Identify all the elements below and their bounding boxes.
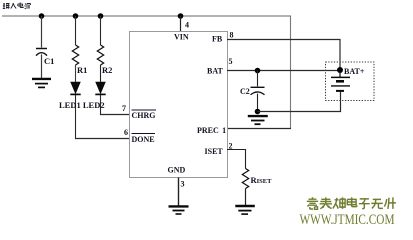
- wire LED1 bottom lead: [75, 95, 77, 139]
- battery BT1: [331, 70, 350, 91]
- node dot VIN/rail: [178, 13, 184, 19]
- node dot BAT/C2: [255, 68, 261, 74]
- label input-power 输入电源 (stroke glyphs): [3, 3, 31, 9]
- svg-text:R2: R2: [102, 65, 112, 75]
- svg-text:ISET: ISET: [205, 147, 224, 156]
- wire battery return: [258, 91, 341, 112]
- svg-text:C2: C2: [240, 87, 250, 96]
- wire R1-LED1 lead: [75, 65, 77, 82]
- svg-text:3: 3: [181, 180, 185, 189]
- ground GND: [169, 206, 189, 214]
- pin label CHRG with overline: [132, 110, 157, 120]
- wire C2 top lead: [257, 71, 259, 87]
- ground C2: [248, 116, 268, 124]
- wire C2 bottom lead: [257, 94, 259, 112]
- svg-text:LED1 LED2: LED1 LED2: [59, 100, 105, 110]
- capacitor C1: [36, 49, 47, 56]
- LED D2: [95, 82, 105, 94]
- wire CHRG pin7 stub: [100, 114, 130, 116]
- wire RISET bottom lead: [245, 189, 247, 206]
- wire LED2 bottom lead: [100, 95, 102, 115]
- wire DONE pin6 stub: [75, 138, 130, 140]
- svg-text:C1: C1: [44, 56, 54, 66]
- svg-text:BAT+: BAT+: [344, 67, 365, 76]
- node dot R1/rail: [73, 13, 79, 19]
- node dot R2/rail: [98, 13, 104, 19]
- wire R2 top lead: [100, 16, 102, 45]
- svg-text:WWW.JTMIC.COM: WWW.JTMIC.COM: [300, 212, 395, 228]
- wire C1 top lead: [41, 16, 43, 48]
- resistor R1: [72, 45, 78, 65]
- svg-text:2: 2: [229, 142, 233, 151]
- wire right input drop to PREC: [290, 16, 292, 129]
- ground RISET: [235, 206, 255, 214]
- watermark url WWW.JTMIC.COM: [300, 212, 395, 228]
- node dot C2/battery-return: [255, 109, 261, 115]
- svg-text:8: 8: [230, 31, 234, 40]
- wire C1 bottom lead: [41, 54, 43, 78]
- svg-text:7: 7: [122, 104, 126, 113]
- wire R1 top lead: [75, 16, 77, 45]
- svg-text:VIN: VIN: [174, 33, 189, 42]
- wire FB pin8: [227, 40, 340, 71]
- capacitor C2: [251, 87, 265, 95]
- svg-text:PREC1: PREC1: [197, 126, 226, 135]
- wire top power rail: [2, 15, 291, 17]
- node dot BAT+/FB: [337, 67, 343, 73]
- svg-text:CHRG: CHRG: [132, 111, 156, 120]
- wire PREC pin1: [227, 128, 291, 130]
- wire BAT pin5: [227, 70, 340, 72]
- resistor R2: [97, 45, 103, 65]
- ground C1: [32, 79, 51, 88]
- resistor RISET: [242, 169, 248, 189]
- svg-text:GND: GND: [168, 166, 186, 175]
- svg-text:DONE: DONE: [132, 135, 155, 144]
- wire VIN pin4 drop: [180, 16, 182, 31]
- svg-text:BAT: BAT: [207, 67, 224, 76]
- wire GND pin3 stub: [178, 178, 180, 206]
- pin label DONE with overline: [132, 134, 156, 145]
- LED D1: [70, 82, 80, 94]
- watermark chinese 嘉泰姆电子元件 (stroke glyphs): [307, 197, 396, 209]
- svg-text:6: 6: [124, 128, 128, 137]
- svg-text:4: 4: [185, 21, 189, 30]
- battery dashed enclosure: [326, 62, 375, 101]
- svg-text:R1: R1: [77, 65, 87, 75]
- node dot C1/rail: [39, 13, 45, 19]
- op-amp U1 charger IC box: [130, 32, 228, 178]
- wire ISET pin2 stub: [227, 150, 246, 169]
- svg-text:FB: FB: [212, 35, 223, 44]
- wire R2-LED2 lead: [100, 65, 102, 82]
- svg-text:5: 5: [229, 57, 233, 66]
